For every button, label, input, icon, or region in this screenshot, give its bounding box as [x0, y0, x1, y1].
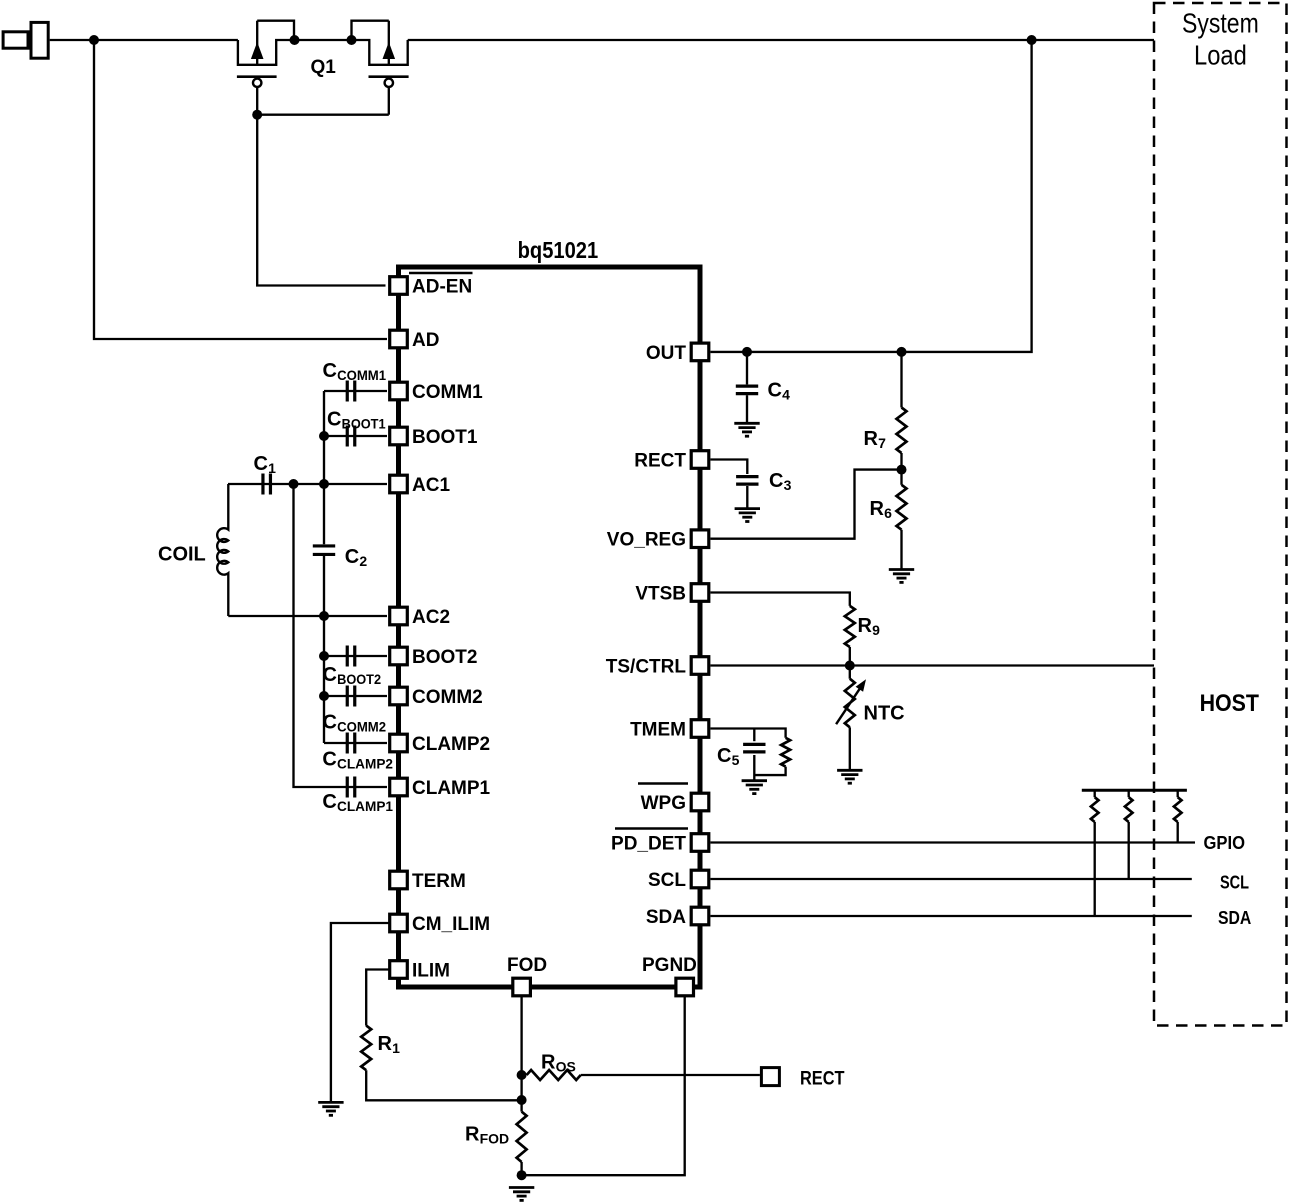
svg-text:TMEM: TMEM — [630, 720, 686, 741]
wire C5 to ground — [753, 755, 755, 781]
ground NTC — [837, 770, 862, 783]
wire bus AC1 upper (CCOMM1/CBOOT1) — [323, 391, 325, 544]
ground RFOD — [509, 1188, 534, 1201]
node VIN junction — [89, 35, 99, 45]
wire CM_ILIM to ground — [331, 923, 389, 1101]
pin CLAMP1 — [390, 778, 408, 796]
svg-text:bq51021: bq51021 — [518, 237, 599, 263]
svg-text:AC1: AC1 — [412, 475, 450, 496]
svg-text:BOOT1: BOOT1 — [342, 416, 386, 432]
svg-text:R: R — [858, 615, 873, 637]
capacitor CCOMM2 — [346, 686, 349, 707]
pin AC1 — [390, 475, 408, 493]
svg-text:3: 3 — [784, 477, 792, 493]
wire ILIM to R1 — [366, 970, 388, 1026]
node TS/CTRL-NTC junction — [845, 661, 855, 671]
ground C3 — [735, 509, 760, 522]
pin BOOT1 — [390, 427, 408, 445]
node Q1 right drain — [347, 35, 357, 45]
svg-text:R: R — [864, 428, 879, 450]
pin TERM — [390, 871, 408, 889]
resistor RFOD — [517, 1112, 527, 1162]
wire AC1 net — [228, 483, 387, 485]
pin FOD — [513, 978, 531, 996]
node OUT-C4 junction — [742, 347, 752, 357]
svg-text:OS: OS — [556, 1059, 576, 1075]
svg-text:COMM2: COMM2 — [412, 687, 483, 708]
node RFOD-PGND junction — [517, 1170, 527, 1180]
resistor pull-up GPIO — [1177, 790, 1179, 797]
svg-text:C: C — [322, 791, 336, 813]
svg-text:CLAMP2: CLAMP2 — [337, 756, 393, 772]
svg-text:BOOT2: BOOT2 — [412, 647, 477, 668]
wire RECT pin to C3 — [711, 460, 748, 475]
wire Q1 mid node — [295, 39, 352, 41]
pin VTSB — [691, 584, 709, 602]
svg-text:HOST: HOST — [1200, 690, 1259, 717]
node Q1 left drain — [290, 35, 300, 45]
transistor Q1 left FET body — [237, 21, 295, 115]
node CBOOT1 junction — [319, 431, 329, 441]
pin AC2 — [390, 607, 408, 625]
svg-text:C: C — [717, 745, 731, 767]
svg-text:C: C — [323, 360, 337, 382]
svg-text:RECT: RECT — [800, 1069, 845, 1090]
pin COMM2 — [390, 687, 408, 705]
svg-text:R: R — [378, 1033, 393, 1055]
wire AD sense from input to AD pin — [94, 40, 387, 339]
svg-text:TERM: TERM — [412, 871, 466, 892]
pin PGND — [676, 978, 694, 996]
pin OUT — [691, 343, 709, 361]
inductor COIL — [217, 484, 228, 616]
svg-text:NTC: NTC — [864, 703, 905, 725]
pin TS/CTRL — [691, 657, 709, 675]
wire C3 to ground — [746, 486, 748, 509]
wire FOD mid — [520, 1075, 522, 1112]
pin WPG — [691, 793, 709, 811]
svg-text:1: 1 — [268, 460, 276, 476]
svg-text:TS/CTRL: TS/CTRL — [606, 657, 687, 678]
wire pull-up supply bar — [1082, 789, 1187, 792]
pin SCL — [691, 870, 709, 888]
svg-text:WPG: WPG — [641, 793, 686, 814]
resistor RTMEM parallel — [781, 738, 790, 767]
svg-text:4: 4 — [782, 387, 790, 403]
pin RECT — [691, 451, 709, 469]
svg-text:R: R — [541, 1052, 556, 1074]
svg-text:C: C — [769, 470, 783, 492]
pin CLAMP2 — [390, 734, 408, 752]
wire SCL net — [711, 878, 1192, 880]
resistor R9 — [845, 606, 855, 647]
node CCOMM2 junction — [319, 691, 329, 701]
wire PGND to ground node — [522, 997, 685, 1175]
node OUT-R7 junction — [897, 347, 907, 357]
wire RFOD to ground node — [520, 1162, 522, 1175]
wire R9 to TS/CTRL — [849, 647, 851, 666]
thermistor NTC — [845, 679, 855, 728]
svg-text:1: 1 — [392, 1040, 400, 1056]
pin VO_REG — [691, 530, 709, 548]
svg-text:C: C — [322, 749, 336, 771]
capacitor C1 — [261, 474, 264, 495]
terminal RECT — [761, 1068, 779, 1086]
capacitor C4 — [736, 385, 758, 388]
input connector J1 — [3, 22, 238, 58]
wire Q1 gate bus — [257, 114, 389, 116]
svg-text:2: 2 — [359, 553, 367, 569]
svg-text:AD: AD — [412, 330, 439, 351]
wire R6 to ground — [900, 530, 902, 570]
capacitor CBOOT2 — [346, 646, 349, 667]
svg-text:SCL: SCL — [648, 870, 686, 891]
svg-text:C: C — [768, 380, 782, 402]
svg-text:R: R — [465, 1124, 480, 1146]
svg-text:COIL: COIL — [158, 544, 206, 566]
svg-text:AC2: AC2 — [412, 607, 450, 628]
wire SDA net — [711, 915, 1192, 917]
wire TMEM net — [711, 729, 786, 738]
wire C4 to ground — [746, 395, 748, 423]
resistor ROS — [527, 1070, 581, 1080]
NTC arrow — [836, 688, 860, 725]
node OUT-rail junction — [1027, 35, 1037, 45]
pin CM_ILIM — [390, 914, 408, 932]
System Load / HOST dashed box — [1154, 3, 1287, 1026]
svg-text:SCL: SCL — [1220, 873, 1249, 893]
capacitor CCOMM1 — [346, 381, 349, 402]
svg-text:CM_ILIM: CM_ILIM — [412, 914, 490, 935]
wire bus AC2 lower — [323, 556, 325, 743]
wire AC2 net — [228, 615, 387, 617]
resistor R7 — [897, 408, 907, 454]
svg-text:7: 7 — [878, 435, 886, 451]
svg-text:5: 5 — [732, 752, 740, 768]
wire TMEM bottom join — [754, 767, 785, 776]
node Q1 gate junction — [252, 110, 262, 120]
ground C4 — [734, 423, 759, 436]
resistor pull-up SCL — [1128, 790, 1130, 797]
wire CLAMP2 net — [324, 742, 387, 744]
capacitor CCLAMP1 — [346, 777, 349, 798]
svg-text:FOD: FOD — [480, 1131, 510, 1147]
pin SDA — [691, 907, 709, 925]
svg-text:RECT: RECT — [634, 451, 686, 472]
svg-text:SDA: SDA — [1218, 908, 1251, 928]
svg-text:6: 6 — [884, 505, 892, 521]
svg-text:PGND: PGND — [642, 955, 697, 976]
capacitor CBOOT1 — [346, 426, 349, 447]
svg-text:VO_REG: VO_REG — [607, 530, 686, 551]
capacitor C5 — [743, 743, 765, 746]
node AC1-bus junction — [319, 479, 329, 489]
transistor Q1 right FET body — [352, 21, 409, 115]
ground C5 — [742, 781, 767, 794]
wire R7 stem top — [900, 352, 902, 408]
wire top rail to System Load — [408, 39, 1154, 41]
svg-text:C: C — [345, 546, 359, 568]
pin ILIM — [390, 961, 408, 979]
svg-text:PD_DET: PD_DET — [611, 834, 686, 855]
resistor pull-up SDA — [1094, 790, 1096, 797]
resistor R6 — [897, 485, 907, 530]
wire ROS to RECT terminal — [581, 1074, 760, 1076]
pin PD_DET — [691, 834, 709, 852]
wire BOOT2 net — [324, 655, 387, 657]
wire R1 to FOD node — [366, 1070, 521, 1100]
wire OUT net — [711, 40, 1032, 352]
wire R6 stem top — [900, 470, 902, 485]
svg-text:Q1: Q1 — [311, 57, 337, 78]
pin BOOT2 — [390, 647, 408, 665]
node AC2-bus junction — [319, 611, 329, 621]
wire VTSB to R9 — [711, 593, 850, 606]
svg-text:COMM1: COMM1 — [412, 382, 483, 403]
resistor R1 — [361, 1026, 371, 1071]
pin AD-EN — [390, 277, 408, 295]
svg-text:AD-EN: AD-EN — [412, 277, 472, 298]
node CBOOT2 junction — [319, 651, 329, 661]
capacitor CCLAMP2 — [346, 733, 349, 754]
svg-text:FOD: FOD — [507, 955, 547, 976]
wire R7 stem bottom — [900, 453, 902, 470]
capacitor C2 — [313, 544, 335, 547]
svg-text:COMM2: COMM2 — [337, 719, 386, 735]
svg-text:Load: Load — [1194, 40, 1247, 71]
wire PD_DET / GPIO net — [711, 841, 1196, 843]
wire CLAMP1 net — [294, 484, 388, 787]
node AC1-clamp junction — [289, 479, 299, 489]
svg-text:System: System — [1182, 7, 1259, 38]
svg-text:R: R — [870, 498, 885, 520]
svg-text:CLAMP1: CLAMP1 — [337, 798, 393, 814]
svg-text:C: C — [323, 664, 337, 686]
wire BOOT1 net — [324, 435, 387, 437]
svg-text:VTSB: VTSB — [635, 584, 686, 605]
svg-text:CLAMP1: CLAMP1 — [412, 778, 491, 799]
capacitor C3 — [736, 475, 758, 478]
svg-text:CLAMP2: CLAMP2 — [412, 734, 490, 755]
node R7-R6 junction — [897, 465, 907, 475]
wire NTC to ground — [849, 727, 851, 770]
wire AD-EN from gate bus — [257, 115, 385, 286]
wire NTC stem top — [849, 666, 851, 679]
IC U1 bq51021 outline — [399, 267, 701, 987]
pin AD — [390, 330, 408, 348]
node FOD-ROS junction — [517, 1070, 527, 1080]
svg-text:BOOT1: BOOT1 — [412, 427, 478, 448]
wire COMM1 net — [324, 390, 387, 392]
svg-text:SDA: SDA — [646, 907, 686, 928]
svg-text:BOOT2: BOOT2 — [337, 671, 381, 687]
svg-text:C: C — [254, 453, 268, 475]
ground R6 — [889, 570, 914, 583]
svg-text:C: C — [327, 409, 341, 431]
pin COMM1 — [390, 382, 408, 400]
node FOD-R1 junction — [517, 1095, 527, 1105]
capacitor C5 stem — [753, 729, 755, 742]
wire C4 stem — [746, 352, 748, 385]
wire VO_REG to divider — [711, 470, 902, 539]
svg-text:GPIO: GPIO — [1204, 833, 1246, 853]
wire COMM2 net — [324, 695, 387, 697]
wire FOD stem — [520, 997, 522, 1075]
ground CM_ILIM — [318, 1102, 343, 1115]
svg-text:9: 9 — [872, 622, 880, 638]
svg-text:C: C — [323, 712, 337, 734]
pin TMEM — [691, 720, 709, 738]
svg-text:OUT: OUT — [646, 343, 687, 364]
wire TS/CTRL net — [711, 664, 1155, 666]
svg-text:ILIM: ILIM — [412, 961, 450, 982]
svg-text:COMM1: COMM1 — [337, 367, 386, 383]
